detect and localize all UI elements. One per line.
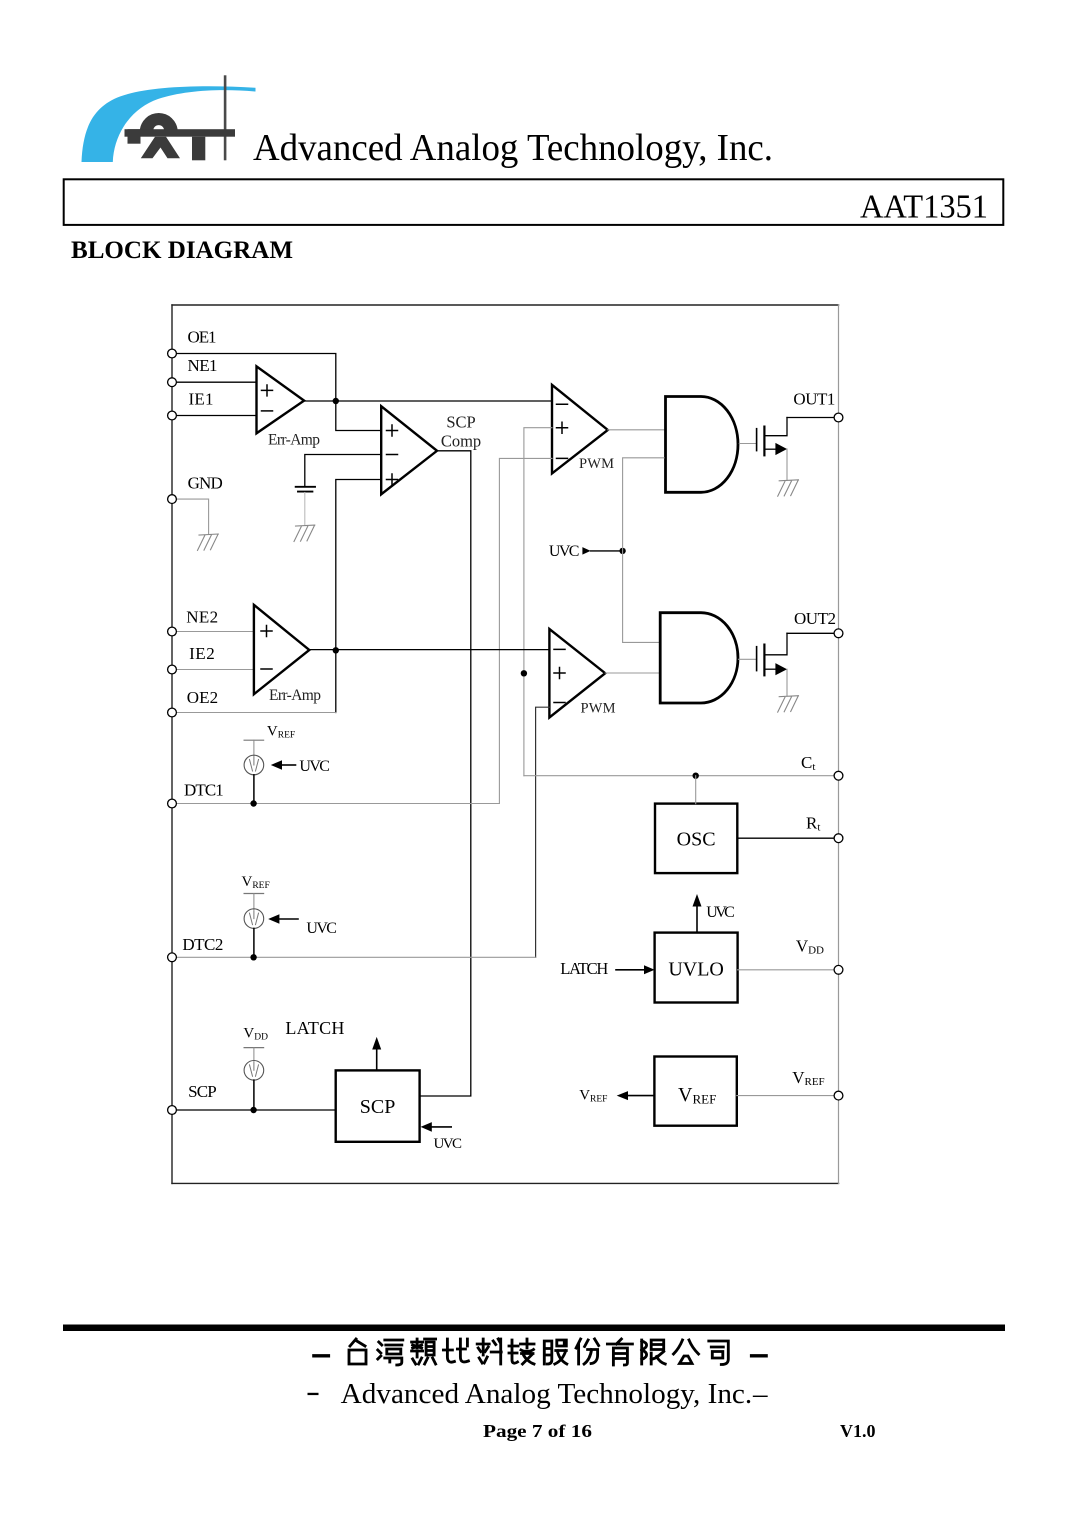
svg-text:OE1: OE1 xyxy=(188,327,217,346)
wire PWM2 input3 to DTC2 net xyxy=(536,707,550,957)
svg-text:VREF: VREF xyxy=(242,874,270,891)
svg-text:SCP: SCP xyxy=(446,412,475,431)
svg-text:UVC: UVC xyxy=(434,1136,463,1152)
svg-text:VDD: VDD xyxy=(796,936,824,956)
svg-text:UVC: UVC xyxy=(299,758,330,775)
and-gate AND2 xyxy=(660,613,738,703)
op-amp SCP Comp xyxy=(381,406,481,494)
ground (GND pin) xyxy=(198,534,219,550)
svg-text:NE1: NE1 xyxy=(188,356,218,375)
svg-text:OSC: OSC xyxy=(677,829,716,851)
label UVC (gate drive) xyxy=(549,543,623,560)
pin IE1 xyxy=(168,411,177,420)
pin OUT2 xyxy=(834,629,843,638)
svg-text:VREF: VREF xyxy=(579,1088,607,1105)
node junction DTC2 xyxy=(250,954,256,960)
wire VREF to pin xyxy=(737,1095,835,1097)
label UVC (I2 control arrow) xyxy=(268,914,337,937)
wire VDD xyxy=(738,969,835,971)
wire capacitor to ground xyxy=(304,493,306,525)
wire Ct net vertical (to PWM inputs) xyxy=(524,428,552,776)
svg-text:LATCH: LATCH xyxy=(285,1018,344,1038)
pin IE2 xyxy=(168,665,177,674)
svg-text:Advanced Analog Technology, In: Advanced Analog Technology, Inc. xyxy=(341,1378,753,1410)
wire SCP Comp inverting input to capacitor xyxy=(305,455,381,487)
ground (Q1 source) xyxy=(778,480,799,496)
pin GND xyxy=(168,495,177,504)
wire NE2 xyxy=(176,631,254,633)
wire NE1 xyxy=(176,381,256,383)
footer rule xyxy=(63,1325,1005,1332)
svg-text:VDD: VDD xyxy=(243,1026,268,1043)
wire Ct junction to OSC xyxy=(695,776,697,804)
wire DTC2 xyxy=(176,956,535,958)
svg-text:OUT2: OUT2 xyxy=(794,609,836,628)
label UVC (I1 control arrow) xyxy=(271,758,330,775)
node junction Ct/OSC xyxy=(693,773,699,779)
part number box xyxy=(64,179,1004,225)
svg-text:OE2: OE2 xyxy=(187,688,218,707)
label LATCH (SCP output arrow) xyxy=(285,1018,381,1071)
label VREF (output arrow left) xyxy=(579,1088,654,1105)
svg-text:V1.0: V1.0 xyxy=(840,1421,876,1441)
node junction Ct net / PWM2 input xyxy=(521,670,527,676)
wire UVC net to AND gates xyxy=(623,458,665,643)
ground (Q2 source) xyxy=(778,696,799,712)
pin OE1 xyxy=(168,349,177,358)
svg-text:–: – xyxy=(752,1378,768,1410)
pin OE2 xyxy=(168,708,177,717)
capacitor C1 xyxy=(296,487,315,492)
node junction OE1/Err-Amp1 out xyxy=(333,398,339,404)
svg-text:SCP: SCP xyxy=(188,1082,217,1101)
label UVC (into SCP block) xyxy=(421,1122,462,1152)
pin NE2 xyxy=(168,627,177,636)
pin OUT1 xyxy=(834,413,843,422)
pin VDD xyxy=(834,965,843,974)
svg-text:UVC: UVC xyxy=(306,920,337,937)
wire Err-Amp1 output to PWM1 xyxy=(304,400,552,402)
wire IE1 xyxy=(176,415,256,417)
svg-text:UVC: UVC xyxy=(549,543,580,560)
comparator PWM2 xyxy=(549,629,615,718)
wire Rt xyxy=(737,837,834,839)
svg-text:UVLO: UVLO xyxy=(668,959,724,981)
op-amp Err-Amp1 xyxy=(257,366,321,448)
svg-text:VREF: VREF xyxy=(678,1084,716,1107)
wire Ct xyxy=(524,775,834,777)
pin terminals right xyxy=(834,413,843,1100)
svg-text:BLOCK DIAGRAM: BLOCK DIAGRAM xyxy=(71,235,293,264)
node junction DTC1 xyxy=(250,800,256,806)
current source I1 (VREF to DTC1) xyxy=(244,724,295,804)
pin terminals left xyxy=(168,349,177,1114)
wire PWM1 output to AND1 xyxy=(608,429,664,431)
and-gate AND1 xyxy=(666,397,739,493)
wire Q2 drain to OUT2 xyxy=(787,632,834,634)
wire GND xyxy=(176,499,208,533)
wire AND2 output to Q2 gate xyxy=(739,658,757,660)
wire Err-Amp2 output to PWM2 xyxy=(309,649,549,651)
wire DTC1 xyxy=(176,803,499,805)
ground (capacitor) xyxy=(294,525,315,541)
pin DTC2 xyxy=(168,953,177,962)
svg-text:PWM: PWM xyxy=(579,456,614,472)
diagram outer frame xyxy=(172,305,839,1183)
pin DTC1 xyxy=(168,799,177,808)
current source I3 (VDD to SCP) xyxy=(243,1026,268,1110)
svg-text:Rt: Rt xyxy=(806,814,820,834)
node junction SCP xyxy=(250,1107,256,1113)
svg-text:NE2: NE2 xyxy=(186,607,218,626)
footer english company name xyxy=(308,1378,769,1410)
svg-text:GND: GND xyxy=(188,473,223,492)
pin SCP xyxy=(168,1106,177,1115)
svg-text:PWM: PWM xyxy=(581,701,616,717)
wire PWM2 output to AND2 xyxy=(605,672,659,674)
pin Rt xyxy=(834,834,843,843)
svg-text:SCP: SCP xyxy=(360,1096,396,1118)
svg-text:DTC1: DTC1 xyxy=(184,780,224,799)
svg-text:DTC2: DTC2 xyxy=(182,935,223,954)
wire SCP pin to SCP block xyxy=(176,1109,335,1111)
wire SCP Comp input3 to OE2 net xyxy=(336,480,381,713)
transistor Q2 xyxy=(757,633,787,695)
wire IE2 xyxy=(176,669,254,671)
wire SCP Comp output to SCP block xyxy=(420,451,471,1096)
wire Q1 drain to OUT1 xyxy=(787,417,834,419)
block SCP xyxy=(336,1070,420,1141)
footer chinese company name xyxy=(314,1339,766,1365)
svg-text:Err-Amp: Err-Amp xyxy=(268,432,320,449)
wire OE2 xyxy=(176,712,335,714)
svg-text:OUT1: OUT1 xyxy=(793,390,835,409)
pin Ct xyxy=(834,771,843,780)
block OSC xyxy=(655,804,737,874)
pin labels left xyxy=(182,327,223,1101)
svg-text:Advanced Analog Technology, In: Advanced Analog Technology, Inc. xyxy=(253,127,773,169)
node junction UVC net xyxy=(619,548,625,554)
wire OE1 to Err-Amp1 output and SCP Comp input xyxy=(176,354,381,431)
transistor Q1 xyxy=(757,418,787,481)
svg-text:Ct: Ct xyxy=(801,753,815,773)
company logo xyxy=(82,75,256,162)
pin VREF xyxy=(834,1091,843,1100)
op-amp Err-Amp2 xyxy=(254,605,321,704)
label UVC (UVLO output arrow) xyxy=(693,894,735,933)
block UVLO xyxy=(655,933,738,1003)
svg-text:VREF: VREF xyxy=(267,724,295,741)
svg-text:IE2: IE2 xyxy=(189,644,215,663)
svg-text:IE1: IE1 xyxy=(189,389,214,408)
svg-text:Err-Amp: Err-Amp xyxy=(269,687,321,704)
block VREF xyxy=(654,1057,736,1126)
svg-text:AAT1351: AAT1351 xyxy=(860,188,988,225)
pin NE1 xyxy=(168,378,177,387)
svg-text:Comp: Comp xyxy=(441,431,481,450)
comparator PWM1 xyxy=(552,385,614,474)
svg-text:LATCH: LATCH xyxy=(560,959,608,978)
svg-text:VREF: VREF xyxy=(792,1068,824,1088)
wire DTC1 net vertical to PWM1 xyxy=(499,458,552,803)
svg-text:Page 7 of 16: Page 7 of 16 xyxy=(483,1421,592,1441)
wire AND1 output to Q1 gate xyxy=(739,443,756,445)
label LATCH (into UVLO) xyxy=(560,959,654,978)
svg-text:UVC: UVC xyxy=(706,904,735,921)
current source I2 (VREF to DTC2) xyxy=(242,874,270,957)
node junction Err-Amp2 out xyxy=(333,647,339,653)
pin labels right xyxy=(792,390,836,1088)
